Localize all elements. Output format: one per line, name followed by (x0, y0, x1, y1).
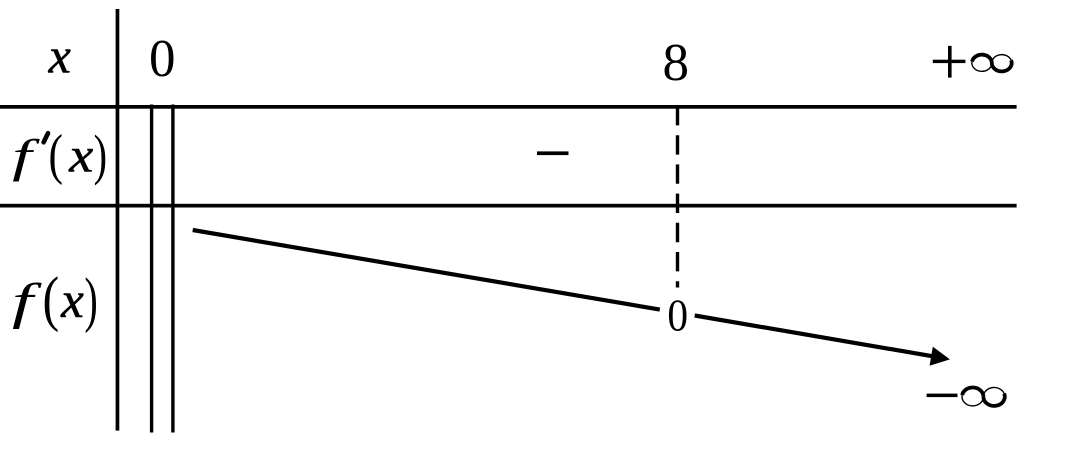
column separator vertical rule (116, 9, 120, 431)
decreasing arrow segment 2 (695, 316, 938, 358)
svg-text:8: 8 (663, 34, 690, 92)
decreasing arrow segment 1 (193, 230, 660, 310)
svg-text:x: x (60, 273, 84, 329)
plus sign of +infinity : vertical bar (948, 46, 952, 78)
minus sign of -infinity (927, 394, 958, 398)
bottom row divider (horizontal rule 2) (0, 204, 1017, 208)
infinity symbol of -infinity (962, 387, 1005, 405)
svg-text:): ) (84, 267, 97, 334)
svg-text:x: x (48, 28, 71, 84)
dashed vertical line at x=8 (676, 106, 679, 288)
svg-text:(: ( (49, 123, 63, 185)
arrowhead (930, 347, 950, 366)
infinity symbol of +infinity (972, 55, 1012, 72)
row label f'(x): prime (44, 133, 48, 142)
svg-text:x: x (68, 129, 93, 183)
top row divider (horizontal rule 1) (0, 105, 1017, 109)
plus sign of +infinity : horizontal bar (933, 60, 966, 63)
double bar left (f undefined at 0) (150, 105, 153, 433)
svg-text:(: ( (43, 265, 60, 333)
svg-text:): ) (94, 124, 107, 186)
double bar right (f undefined at 0) (171, 105, 174, 433)
minus sign in f'(x) row (537, 151, 569, 155)
svg-text:0: 0 (149, 30, 176, 88)
svg-text:0: 0 (667, 291, 688, 341)
